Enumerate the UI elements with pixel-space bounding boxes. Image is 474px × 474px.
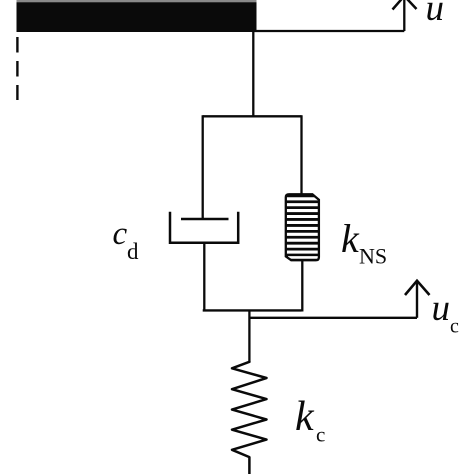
svg-text:NS: NS [359,244,387,269]
svg-text:c: c [450,316,459,338]
svg-text:k: k [295,394,315,440]
svg-text:u: u [432,288,451,329]
svg-text:c: c [316,423,325,447]
svg-text:k: k [341,216,360,261]
svg-text:u: u [426,0,445,29]
svg-text:c: c [113,216,128,252]
svg-text:d: d [127,239,139,264]
